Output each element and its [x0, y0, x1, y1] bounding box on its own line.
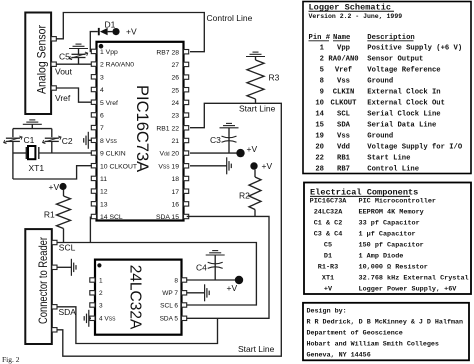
capacitor C2	[43, 129, 73, 153]
svg-text:2 RA0/AN0: 2 RA0/AN0	[100, 62, 134, 69]
ground above C3	[220, 123, 239, 127]
ground at pin 19 Vss	[190, 157, 231, 174]
svg-text:11: 11	[100, 176, 107, 183]
svg-text:22: 22	[315, 154, 324, 162]
wire SDA net pin 15 to eeprom pin 5	[187, 216, 269, 318]
svg-text:2: 2	[320, 55, 324, 63]
svg-text:R1-R3: R1-R3	[318, 264, 338, 272]
eeprom left pins	[90, 278, 95, 321]
svg-text:3: 3	[99, 302, 103, 309]
svg-text:32.768 kHz External Crystal: 32.768 kHz External Crystal	[359, 275, 469, 283]
svg-text:C1: C1	[24, 135, 35, 145]
svg-text:+V: +V	[262, 161, 273, 171]
node Control Line label	[207, 13, 253, 23]
svg-text:Vref: Vref	[55, 93, 71, 103]
svg-text:D1: D1	[324, 253, 332, 261]
svg-text:23: 23	[171, 113, 179, 120]
svg-text:24LC32A: 24LC32A	[314, 209, 343, 217]
svg-text:150 pf Capacitor: 150 pf Capacitor	[359, 242, 424, 250]
pin table header	[309, 34, 415, 42]
svg-text:Vout: Vout	[55, 66, 73, 76]
svg-text:SDA: SDA	[59, 307, 77, 317]
svg-text:C3 & C4: C3 & C4	[314, 231, 343, 239]
svg-text:RB7 28: RB7 28	[156, 49, 179, 56]
eeprom 24LC32A U2	[95, 260, 182, 335]
svg-text:Voltage Reference: Voltage Reference	[367, 66, 440, 74]
PIC16C73A U1	[97, 42, 184, 221]
svg-text:Vdd: Vdd	[337, 143, 350, 151]
wire SDA from connector	[57, 307, 218, 344]
wire Vref sensor to pin 5	[56, 88, 92, 102]
svg-text:SDA 15: SDA 15	[156, 214, 179, 221]
svg-text:9: 9	[320, 88, 324, 96]
svg-text:17: 17	[171, 189, 179, 196]
svg-text:Vpp: Vpp	[337, 44, 350, 52]
svg-text:SDA: SDA	[337, 121, 351, 129]
ground above R3	[246, 52, 265, 60]
svg-text:4: 4	[100, 87, 104, 94]
svg-text:+V: +V	[324, 286, 333, 294]
svg-text:+V: +V	[247, 144, 258, 154]
eeprom left pin labels	[99, 277, 116, 322]
connector pins	[52, 240, 57, 332]
analog sensor pins	[51, 37, 56, 91]
ground at eeprom pin 4	[84, 310, 91, 327]
svg-text:C5: C5	[324, 242, 332, 250]
svg-text:10: 10	[315, 99, 324, 107]
figure caption Fig. 2	[2, 355, 20, 364]
node Start Line label top	[239, 103, 276, 113]
svg-text:19: 19	[315, 132, 324, 140]
svg-text:24LC32A: 24LC32A	[127, 265, 144, 330]
svg-text:1 Amp Diode: 1 Amp Diode	[359, 253, 404, 261]
svg-text:Geneva, NY 14456: Geneva, NY 14456	[307, 352, 371, 360]
svg-text:Logger Power Supply, +6V: Logger Power Supply, +6V	[359, 286, 458, 294]
svg-text:Serial Data Line: Serial Data Line	[367, 121, 436, 129]
diode D1 with +V	[90, 19, 137, 51]
svg-text:24: 24	[171, 100, 179, 107]
svg-text:Control Line: Control Line	[207, 13, 253, 23]
svg-text:18: 18	[171, 176, 179, 183]
svg-text:3: 3	[100, 74, 104, 81]
svg-text:14: 14	[315, 110, 324, 118]
svg-text:8 VSS: 8 VSS	[100, 138, 118, 145]
PIC left pin labels	[100, 49, 137, 221]
svg-text:2: 2	[99, 290, 103, 297]
crystal XT1	[13, 146, 44, 173]
svg-text:+V: +V	[49, 182, 60, 192]
svg-text:10,000 Ω Resistor: 10,000 Ω Resistor	[359, 264, 428, 272]
svg-text:26: 26	[171, 75, 179, 82]
wire control line from sensor to pin 28	[56, 13, 204, 52]
svg-text:12: 12	[100, 189, 108, 196]
node Vout label	[55, 66, 73, 76]
node SDA label	[59, 307, 77, 317]
svg-text:Connector to Reader: Connector to Reader	[36, 237, 50, 324]
svg-text:Sensor Output: Sensor Output	[367, 55, 423, 63]
svg-text:PIC Microcontroller: PIC Microcontroller	[359, 198, 437, 206]
svg-text:XT1: XT1	[29, 163, 45, 173]
svg-text:28: 28	[315, 165, 324, 173]
svg-text:R3: R3	[269, 73, 280, 83]
svg-text:C2: C2	[62, 136, 73, 146]
capacitor C5	[59, 52, 88, 65]
svg-text:C1 & C2: C1 & C2	[314, 220, 343, 228]
svg-text:1: 1	[99, 277, 103, 284]
svg-text:C5: C5	[59, 52, 70, 62]
resistor R2	[239, 170, 261, 217]
ground above C5	[69, 44, 88, 54]
svg-text:CLKIN: CLKIN	[333, 88, 355, 96]
wire crystal bottom loop to pin 10 CLKOUT	[13, 166, 92, 179]
svg-text:CLKOUT: CLKOUT	[331, 99, 358, 107]
node SCL label	[59, 243, 76, 253]
svg-text:Fig. 2: Fig. 2	[2, 355, 20, 364]
svg-text:5 Vref: 5 Vref	[100, 100, 118, 107]
svg-text:Vdd 20: Vdd 20	[159, 151, 179, 158]
svg-text:Start Line: Start Line	[239, 103, 276, 113]
analog sensor box	[25, 13, 51, 115]
svg-text:13: 13	[100, 201, 108, 208]
svg-text:1 Vpp: 1 Vpp	[100, 49, 118, 56]
svg-text:Version 2.2 - June, 1999: Version 2.2 - June, 1999	[309, 13, 403, 20]
PIC right pin labels	[156, 49, 179, 221]
svg-text:7: 7	[100, 125, 104, 132]
svg-text:RA0/AN0: RA0/AN0	[328, 55, 358, 63]
ground at pin 8 Vss	[84, 132, 92, 149]
svg-text:1 μf Capacitor: 1 μf Capacitor	[359, 231, 416, 239]
svg-text:D1: D1	[105, 19, 116, 29]
svg-text:Department of Geoscience: Department of Geoscience	[307, 330, 403, 338]
svg-text:1: 1	[320, 44, 325, 52]
ground above crystal network	[23, 120, 42, 129]
node +V above R1	[49, 182, 67, 192]
wire Vout sensor to pin 2	[56, 63, 92, 65]
capacitor C1	[4, 129, 35, 179]
svg-text:Vref: Vref	[335, 66, 352, 74]
node Start Line label bottom	[238, 344, 275, 354]
svg-text:25: 25	[171, 87, 179, 94]
svg-text:R R Dedrick, D B McKinney & J: R R Dedrick, D B McKinney & J D Halfman	[307, 319, 464, 327]
pin table rows	[315, 44, 463, 173]
svg-text:Vss: Vss	[337, 132, 350, 140]
svg-text:RB7: RB7	[337, 165, 350, 173]
svg-text:Control Line: Control Line	[367, 165, 419, 173]
svg-text:8: 8	[320, 77, 324, 85]
svg-text:R1: R1	[44, 210, 55, 220]
svg-text:Voltage Supply for I/O: Voltage Supply for I/O	[367, 143, 463, 151]
title box Logger Schematic	[303, 2, 471, 174]
svg-text:SCL 6: SCL 6	[160, 302, 178, 309]
wire eeprom pin 8 to +V	[187, 276, 244, 293]
svg-text:WP 7: WP 7	[162, 290, 178, 297]
svg-text:20: 20	[315, 143, 324, 151]
svg-text:14 SCL: 14 SCL	[100, 214, 123, 221]
svg-text:Analog Sensor: Analog Sensor	[34, 25, 48, 94]
svg-text:XT1: XT1	[322, 275, 334, 283]
svg-text:EEPROM 4K Memory: EEPROM 4K Memory	[359, 209, 424, 217]
ground above C4	[206, 251, 225, 255]
svg-text:VSS 19: VSS 19	[158, 163, 179, 170]
svg-text:Serial Clock Line: Serial Clock Line	[367, 110, 440, 118]
svg-text:15: 15	[315, 121, 324, 129]
PIC right pins 28-15	[184, 50, 189, 219]
ground at connector pin 2	[57, 259, 76, 276]
svg-text:Design by:: Design by:	[307, 308, 347, 316]
wire crystal right to pin 9 CLKIN	[39, 152, 92, 154]
svg-text:RB1 22: RB1 22	[156, 125, 179, 132]
svg-text:SDA 5: SDA 5	[160, 316, 179, 323]
capacitor C3	[210, 128, 237, 153]
svg-text:R2: R2	[239, 191, 250, 201]
eeprom right pins	[182, 278, 187, 321]
svg-text:PIC16C73A: PIC16C73A	[310, 198, 348, 206]
electrical components box	[304, 183, 471, 295]
svg-text:4 VSS: 4 VSS	[99, 316, 116, 323]
svg-text:+V: +V	[126, 27, 137, 37]
svg-text:External Clock Out: External Clock Out	[367, 99, 445, 107]
svg-text:16: 16	[171, 201, 179, 208]
svg-text:8: 8	[174, 277, 178, 284]
svg-text:RB1: RB1	[337, 154, 351, 162]
wire Start Line net	[57, 103, 281, 356]
design credits box	[303, 303, 469, 361]
svg-text:Start Line: Start Line	[367, 154, 410, 162]
wire crystal top rail	[13, 128, 52, 130]
PIC left pins 1-14	[91, 49, 96, 219]
ground at eeprom pin 7 WP	[187, 284, 210, 301]
resistor R1	[44, 190, 71, 243]
svg-text:5: 5	[320, 66, 324, 74]
node Vref label	[55, 93, 71, 103]
eeprom right pin labels	[160, 277, 179, 322]
svg-text:33 pf Capacitor: 33 pf Capacitor	[359, 220, 420, 228]
svg-text:SCL: SCL	[337, 110, 350, 118]
svg-text:10 CLKOUT: 10 CLKOUT	[100, 163, 137, 170]
svg-text:External Clock In: External Clock In	[367, 88, 440, 96]
svg-text:+V: +V	[227, 283, 238, 293]
svg-text:C3: C3	[210, 135, 221, 145]
svg-text:Hobart and William Smith Colle: Hobart and William Smith Colleges	[307, 341, 439, 349]
connector to reader box	[25, 229, 52, 344]
svg-text:SCL: SCL	[59, 243, 76, 253]
svg-text:9 CLKIN: 9 CLKIN	[100, 151, 126, 158]
svg-text:21: 21	[171, 138, 179, 145]
resistor R3	[247, 60, 280, 103]
svg-text:Start Line: Start Line	[238, 344, 275, 354]
svg-text:Vss: Vss	[337, 77, 350, 85]
svg-text:Positive Supply (+6 V): Positive Supply (+6 V)	[367, 44, 462, 52]
wire SCL net	[57, 217, 256, 306]
svg-text:Ground: Ground	[367, 132, 393, 140]
svg-text:Ground: Ground	[367, 77, 393, 85]
svg-text:C4: C4	[196, 263, 207, 273]
svg-text:6: 6	[100, 113, 104, 120]
wire pin 20 Vdd to +V	[190, 144, 257, 157]
svg-text:27: 27	[171, 62, 179, 69]
capacitor C4	[196, 255, 223, 280]
svg-text:PIC16C73A: PIC16C73A	[133, 85, 151, 172]
node +V above R2	[250, 161, 272, 171]
